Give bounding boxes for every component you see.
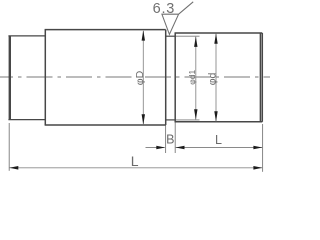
svg-text:B: B (166, 133, 174, 147)
dimension phi-d1 vertical line (195, 37, 197, 120)
svg-text:φd: φd (206, 72, 218, 85)
shaft large middle section outline (45, 30, 166, 125)
node: phi-d1 bottom extension line (from groove bottom edge) (175, 119, 199, 121)
wire: groove-right extension below shaft (B dimension) (174, 122, 176, 153)
node: phi-d1 top extension line (from groove top edge) (175, 35, 199, 37)
svg-text:φD: φD (134, 70, 146, 85)
dimension phi-D vertical line (142, 31, 144, 124)
centerline (dash-dot axis) (0, 76, 270, 78)
dimension L (right section) line (176, 147, 263, 149)
dimension B leader + arrows (146, 147, 165, 149)
dimension overall L line (10, 167, 263, 169)
right extension line for L dims (262, 124, 264, 172)
svg-text:L: L (131, 153, 139, 169)
wire: groove-left extension below shaft (B dimension) (165, 125, 167, 153)
shaft left section outline (8, 36, 45, 120)
dimension phi-d vertical line (215, 34, 217, 122)
svg-text:L: L (215, 133, 222, 147)
left extension line for overall L (8, 123, 10, 171)
svg-text:6.3: 6.3 (153, 1, 176, 17)
shaft right section outline (175, 33, 263, 122)
relief groove outline (width B) (166, 36, 176, 120)
surface roughness symbol 6.3 (162, 2, 193, 35)
svg-text:φd1: φd1 (187, 70, 197, 85)
